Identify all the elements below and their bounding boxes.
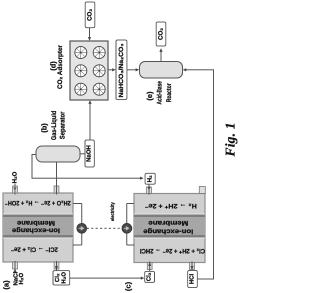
svg-text:2H₂O + 2e⁻ → H₂ + 2OH⁻: 2H₂O + 2e⁻ → H₂ + 2OH⁻ [4, 199, 70, 206]
svg-text:Ion-exchange: Ion-exchange [143, 228, 193, 235]
svg-text:Ion-exchange: Ion-exchange [12, 227, 60, 234]
svg-text:Fig. 1: Fig. 1 [222, 123, 237, 158]
svg-text:Membrane: Membrane [148, 219, 188, 226]
svg-text:CO₂: CO₂ [158, 28, 165, 40]
svg-text:NaHCO₃/Na₂CO₃: NaHCO₃/Na₂CO₃ [118, 43, 125, 97]
svg-text:HCl: HCl [189, 274, 196, 285]
svg-text:H₂ → 2H⁺ + 2e⁻: H₂ → 2H⁺ + 2e⁻ [144, 202, 197, 209]
svg-text:Reactor: Reactor [166, 83, 173, 102]
svg-text:Gas-Liquid: Gas-Liquid [51, 111, 58, 141]
svg-text:Cl₂: Cl₂ [146, 272, 153, 281]
svg-text:(c): (c) [124, 281, 133, 291]
svg-text:CO₂ Adsorpter: CO₂ Adsorpter [57, 45, 64, 89]
svg-text:(e): (e) [145, 91, 154, 101]
svg-text:Cl₂ + 2H⁺ + 2e⁻ → 2HCl: Cl₂ + 2H⁺ + 2e⁻ → 2HCl [140, 247, 205, 254]
svg-text:electricity: electricity [110, 202, 116, 221]
svg-text:2Cl⁻ → Cl₂ + 2e⁻: 2Cl⁻ → Cl₂ + 2e⁻ [10, 245, 58, 252]
svg-text:CO₂: CO₂ [87, 9, 94, 21]
svg-text:(a): (a) [1, 280, 10, 290]
svg-text:H₂O: H₂O [12, 171, 19, 183]
svg-text:H₂O: H₂O [61, 272, 68, 284]
svg-text:H₂O: H₂O [18, 273, 25, 285]
svg-text:H₂: H₂ [147, 175, 154, 182]
svg-text:(b): (b) [40, 123, 49, 133]
svg-text:Cl₂: Cl₂ [54, 273, 61, 282]
svg-text:Acid-Base: Acid-Base [156, 81, 163, 105]
svg-text:Membrane: Membrane [17, 219, 55, 226]
svg-text:Separator: Separator [59, 111, 66, 139]
svg-text:NaOH: NaOH [86, 145, 93, 162]
